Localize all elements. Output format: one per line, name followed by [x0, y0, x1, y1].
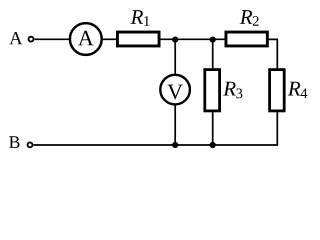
resistor R3 [205, 70, 243, 111]
ammeter A [70, 23, 102, 55]
junction [172, 37, 178, 43]
wire [212, 111, 214, 145]
wire [267, 39, 277, 69]
resistor R2 [226, 10, 267, 46]
junction [172, 142, 178, 148]
wire [103, 38, 118, 40]
junction [210, 37, 216, 43]
node B [9, 136, 32, 148]
wire [212, 39, 214, 69]
wire [160, 38, 226, 40]
wire [276, 111, 278, 145]
wire [174, 104, 176, 145]
resistor R4 [270, 70, 308, 111]
resistor R1 [117, 10, 159, 46]
voltmeter V [160, 75, 190, 105]
wire [34, 38, 70, 40]
wire [33, 144, 278, 146]
node A [9, 32, 33, 44]
junction [210, 142, 216, 148]
wire [174, 39, 176, 75]
